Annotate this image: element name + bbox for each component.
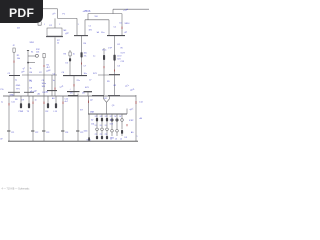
wire (111, 122, 113, 130)
svg-text:1u: 1u (1, 101, 3, 103)
wire (106, 131, 108, 136)
jumper circle top 2 (116, 119, 119, 122)
bold net segment (68, 95, 78, 97)
polarity mark C6 (73, 84, 75, 87)
wire (121, 134, 123, 136)
wire (43, 53, 45, 141)
junction dot (88, 101, 90, 104)
wire header pin 1 (96, 114, 98, 118)
svg-text:1n: 1n (35, 100, 37, 102)
wire (51, 75, 53, 96)
inductor L1 (103, 55, 105, 60)
svg-text:A7: A7 (91, 119, 93, 122)
diode D3 (121, 130, 123, 134)
svg-text:1%: 1% (84, 56, 87, 58)
svg-text:PWR: PWR (19, 111, 24, 113)
capacitor C3 plate (109, 74, 120, 76)
wire (112, 9, 114, 13)
capacitor C5 plate (9, 75, 20, 77)
pin pad bottom 2 (101, 136, 103, 139)
node bar GND left (8, 91, 20, 93)
svg-text:1k: 1k (30, 68, 32, 70)
junction dot (135, 101, 137, 104)
wire (87, 92, 89, 96)
PDF badge (0, 0, 43, 23)
svg-text:2: 2 (59, 24, 60, 26)
svg-text:D2: D2 (95, 116, 97, 118)
pin circle 3 (106, 128, 109, 131)
svg-text:PDF: PDF (9, 6, 34, 20)
wire +5V top rail (113, 8, 149, 10)
wire (101, 131, 103, 136)
svg-text:D13: D13 (110, 124, 113, 126)
node bar GND mid (24, 91, 34, 93)
svg-text:R8: R8 (15, 99, 17, 101)
wire (84, 20, 86, 35)
resistor R1 (13, 48, 15, 52)
svg-text:ICSP: ICSP (129, 120, 134, 122)
diode D5 (69, 58, 71, 61)
capacitor C22 plate (31, 130, 34, 132)
wire (28, 55, 36, 57)
svg-text:1k: 1k (57, 42, 59, 44)
wire (103, 48, 105, 95)
pin circle 2 (101, 128, 104, 131)
svg-text:IO7: IO7 (80, 110, 83, 112)
node bar mid (63, 75, 87, 77)
wire (81, 36, 83, 75)
svg-text:J4: J4 (120, 139, 122, 141)
pin tick SW1 (27, 49, 29, 51)
wire (13, 48, 15, 96)
svg-text:1u: 1u (53, 80, 55, 82)
wire (54, 18, 56, 28)
svg-text:1: 1 (137, 136, 138, 138)
wire (121, 122, 123, 130)
transistor Q1 left lead (104, 96, 107, 102)
node bar VIN (107, 35, 125, 37)
svg-text:M1: M1 (104, 98, 106, 100)
LED D6 (28, 103, 30, 108)
junction dot (43, 65, 45, 67)
wire (135, 95, 137, 141)
wire (114, 36, 116, 95)
capacitor C21 plate (7, 130, 10, 132)
svg-text:P1: P1 (95, 134, 97, 136)
wire (96, 131, 98, 136)
transistor Q1 right lead (107, 96, 110, 102)
wire to LED D7 (47, 96, 49, 103)
wire (108, 20, 110, 35)
svg-text:10u: 10u (101, 32, 104, 34)
svg-text:GND: GND (16, 85, 21, 87)
pin pad top 3 (106, 118, 108, 121)
wire header pin 3 (106, 114, 108, 118)
wire (101, 121, 103, 128)
svg-text:C1: C1 (89, 26, 91, 28)
wire (62, 96, 64, 141)
svg-text:PG: PG (1, 89, 4, 91)
svg-text:C22: C22 (35, 132, 38, 134)
svg-text:10u: 10u (84, 73, 87, 75)
wire (116, 122, 118, 130)
wire (121, 14, 123, 35)
svg-text:D11: D11 (91, 124, 94, 126)
wire (54, 37, 56, 96)
jumper circle bottom 1 (111, 130, 114, 133)
svg-text:D2: D2 (100, 116, 102, 118)
wire RST stub (126, 109, 128, 115)
svg-text:D8: D8 (30, 88, 32, 90)
wire (96, 121, 98, 128)
svg-text:4 — 719 KB — Schematic: 4 — 719 KB — Schematic (2, 188, 31, 191)
svg-text:J3: J3 (115, 139, 117, 141)
svg-text:5V0: 5V0 (95, 16, 98, 18)
svg-text:D2: D2 (105, 116, 107, 118)
svg-text:1: 1 (78, 24, 79, 26)
svg-text:10k: 10k (36, 51, 39, 53)
LED D5 (20, 103, 22, 108)
svg-text:1k: 1k (73, 54, 75, 56)
wire (85, 19, 109, 21)
wire header pin 2 (101, 114, 103, 118)
pin circle SW1 (35, 54, 38, 57)
wire (111, 132, 113, 136)
junction dot (62, 102, 64, 105)
svg-text:10k: 10k (84, 53, 87, 55)
svg-text:1u: 1u (93, 56, 95, 58)
svg-text:LDO: LDO (117, 56, 122, 58)
jumper circle top 1 (111, 119, 114, 122)
wire (88, 114, 90, 138)
capacitor C4 plate (47, 90, 57, 92)
pin dot 2 (116, 119, 118, 121)
capacitor C24 plate (61, 130, 64, 132)
svg-text:GND: GND (110, 138, 115, 140)
wire (73, 76, 75, 96)
wire header bus (88, 113, 127, 115)
svg-text:+VBUS: +VBUS (83, 10, 91, 13)
junction dot (81, 63, 83, 65)
wire main rail (3, 95, 136, 97)
resistor R2 (43, 54, 45, 58)
resistor R4 (81, 52, 83, 57)
wire (69, 50, 71, 75)
svg-text:P3: P3 (105, 134, 107, 136)
wire jumper 2 (116, 114, 118, 119)
wire (32, 96, 34, 141)
pin pad bottom 3 (106, 136, 108, 139)
pin pad top 1 (96, 118, 98, 121)
connector J4 open box (38, 22, 41, 26)
junction dot (32, 102, 34, 105)
pin circle 1 (96, 128, 99, 131)
capacitor C7 plate (84, 91, 93, 93)
svg-text:22u: 22u (77, 80, 80, 82)
polarity mark C3 (114, 70, 116, 72)
svg-text:A6: A6 (29, 79, 31, 82)
node bar under F1 (46, 36, 63, 38)
svg-text:S1: S1 (31, 51, 33, 53)
polarity mark C9 (54, 88, 56, 90)
wire to LED D8 (55, 96, 57, 103)
svg-text:D9: D9 (22, 99, 24, 101)
junction dot (43, 102, 45, 105)
pin pad top 2 (101, 118, 103, 121)
svg-text:10k: 10k (17, 58, 20, 60)
pin body J1-1 (88, 137, 90, 141)
svg-text:C23: C23 (46, 132, 49, 134)
wire (87, 14, 89, 20)
wire jumper 1 (111, 114, 113, 119)
wire (106, 121, 108, 128)
LED D8 (55, 103, 57, 108)
bold net segment (108, 95, 120, 97)
svg-text:100n: 100n (42, 83, 46, 85)
wire (76, 18, 78, 35)
jumper circle top 3 (121, 119, 124, 122)
wire to LED D5 (20, 96, 22, 103)
wire mid rail right (98, 74, 120, 76)
wire (106, 102, 108, 114)
wire (28, 62, 35, 64)
pin pad bottom 1 (96, 136, 98, 139)
wire (8, 96, 10, 141)
wire (77, 94, 79, 142)
svg-text:100n: 100n (84, 131, 88, 133)
svg-text:D7: D7 (110, 116, 112, 118)
node bar VBUS (74, 35, 88, 37)
resistor R3 (69, 52, 71, 56)
wire mid rail (22, 74, 57, 76)
wire (57, 9, 59, 19)
wire VIN rail (88, 13, 122, 15)
fuse F1 box (47, 28, 62, 36)
svg-text:C24: C24 (65, 132, 68, 134)
polarity mark C5 (13, 61, 15, 63)
wire ground rail (8, 140, 138, 142)
regulator U2 (113, 55, 115, 61)
capacitor C25 plate (76, 130, 79, 132)
wire from badge area (43, 8, 58, 10)
wire (27, 51, 29, 97)
junction dot (121, 27, 123, 30)
LED D7 (47, 103, 49, 108)
svg-text:C7: C7 (89, 80, 91, 82)
junction dot SW1 (27, 62, 29, 64)
capacitor C6 plate (67, 91, 80, 93)
jumper circle bottom 2 (116, 130, 119, 133)
wire to LED D6 (28, 96, 30, 103)
bold net segment (92, 95, 104, 97)
svg-text:D8: D8 (110, 120, 112, 122)
svg-text:R6: R6 (30, 72, 32, 74)
wire jumper 3 (121, 114, 123, 119)
wire (88, 96, 90, 114)
svg-text:D5: D5 (66, 63, 68, 65)
svg-text:VCC: VCC (102, 50, 107, 52)
capacitor C23 plate (42, 130, 45, 132)
polarity mark (103, 66, 105, 68)
wire VBUS rail (58, 17, 78, 19)
svg-text:C21: C21 (11, 132, 14, 134)
pin dot 1 (111, 119, 113, 121)
polarity mark (126, 124, 128, 126)
svg-text:P2: P2 (100, 134, 102, 136)
junction dot (8, 103, 10, 106)
wire (116, 132, 118, 136)
svg-text:1u: 1u (15, 80, 17, 82)
svg-text:1: 1 (44, 24, 45, 26)
